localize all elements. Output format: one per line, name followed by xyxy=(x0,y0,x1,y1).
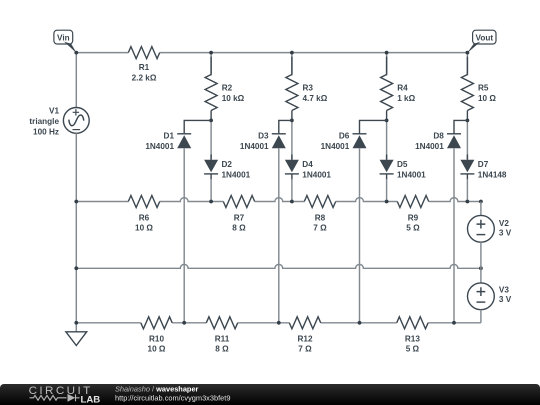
junction node row 1 col 1 xyxy=(209,200,213,204)
svg-text:10 kΩ: 10 kΩ xyxy=(222,94,245,103)
wire column 1 bottom (D2 to row 1) xyxy=(210,179,212,202)
wire column 2 mid (R3 to D4) xyxy=(291,120,293,159)
junction node at column 3 branch xyxy=(385,119,389,123)
wire row 3 seg a (left rail to R10) xyxy=(76,322,141,324)
wire column 1 top (top rail to R2) xyxy=(210,53,212,76)
wire branch horizontal to D6 xyxy=(360,120,387,133)
svg-text:100 Hz: 100 Hz xyxy=(33,127,59,136)
wire branch horizontal to D3 xyxy=(279,120,292,133)
svg-text:5 Ω: 5 Ω xyxy=(406,223,420,232)
junction node row 1 left rail xyxy=(74,200,78,204)
svg-text:10 Ω: 10 Ω xyxy=(148,345,166,354)
wire column 3 bottom (D5 to row 1) xyxy=(386,179,388,202)
voltage source V2 (3 V) xyxy=(468,215,512,242)
resistor R7 xyxy=(223,196,254,233)
junction node row 1 col 2 xyxy=(290,200,294,204)
svg-text:7 Ω: 7 Ω xyxy=(298,345,312,354)
resistor R12 xyxy=(289,317,320,354)
svg-text:R6: R6 xyxy=(139,213,150,222)
resistor R11 xyxy=(206,317,237,354)
junction node row 2 left rail xyxy=(74,266,78,270)
junction node row 1 at V2 xyxy=(479,200,483,204)
wire column 4 top (top rail to R5) xyxy=(466,53,468,76)
junction node row 1 col 3 xyxy=(385,200,389,204)
svg-text:R7: R7 xyxy=(234,213,245,222)
junction node at column 2 branch xyxy=(290,119,294,123)
junction node top rail col 3 xyxy=(385,51,389,55)
wire row 3 seg e (R13 to V3) xyxy=(428,322,481,324)
svg-text:D8: D8 xyxy=(433,132,444,141)
svg-text:Vout: Vout xyxy=(476,34,494,43)
svg-text:8 Ω: 8 Ω xyxy=(232,223,246,232)
svg-text:R12: R12 xyxy=(297,334,312,343)
diode D3 xyxy=(240,132,286,152)
diode D1 xyxy=(145,132,191,152)
wire V2 to V3 (through row 2 node) xyxy=(480,242,482,283)
node Vin label xyxy=(54,30,77,53)
resistor R13 xyxy=(397,317,428,354)
junction node top rail col 1 xyxy=(209,51,213,55)
node Vout label xyxy=(467,30,496,53)
svg-text:1N4001: 1N4001 xyxy=(240,142,269,151)
svg-text:D1: D1 xyxy=(164,132,175,141)
wire row 1 seg a (left rail to R6) xyxy=(76,201,128,203)
svg-text:1N4001: 1N4001 xyxy=(397,170,426,179)
diode D8 xyxy=(415,132,461,152)
wire column 3 mid (R4 to D5) xyxy=(386,120,388,159)
svg-text:R3: R3 xyxy=(303,83,314,92)
svg-text:R8: R8 xyxy=(315,213,326,222)
wire branch horizontal to D8 xyxy=(454,120,467,133)
svg-text:2.2 kΩ: 2.2 kΩ xyxy=(132,74,157,83)
svg-text:triangle: triangle xyxy=(29,117,59,126)
svg-text:7 Ω: 7 Ω xyxy=(313,223,327,232)
diode D5 xyxy=(380,155,427,180)
junction node at column 1 branch xyxy=(209,119,213,123)
resistor R5 xyxy=(461,57,496,121)
svg-text:1N4148: 1N4148 xyxy=(478,170,507,179)
svg-text:1N4001: 1N4001 xyxy=(321,142,350,151)
wire V2 top lead (row 1 to V2) xyxy=(480,202,482,216)
svg-text:3 V: 3 V xyxy=(499,295,512,304)
diode D6 xyxy=(321,132,367,152)
junction node row 2 at V2/V3 xyxy=(479,266,483,270)
svg-text:Vin: Vin xyxy=(57,34,70,43)
wire branch D8 down to row 3 (hops rows 1,2) xyxy=(453,148,455,322)
svg-text:1N4001: 1N4001 xyxy=(145,142,174,151)
wire column 4 bottom (D7 to row 1) xyxy=(466,179,468,202)
svg-text:D5: D5 xyxy=(397,160,408,169)
wire row 1 seg b (R6 to R7, hop at D1) xyxy=(160,198,224,202)
svg-text:1N4001: 1N4001 xyxy=(302,170,331,179)
svg-text:R13: R13 xyxy=(405,334,420,343)
junction node row 3 at D1 xyxy=(182,321,186,325)
junction node row 3 at D3 xyxy=(277,321,281,325)
svg-text:R5: R5 xyxy=(478,83,489,92)
svg-text:V2: V2 xyxy=(499,219,509,228)
node Vin attach point xyxy=(74,51,78,55)
junction node row 3 at D6 xyxy=(358,321,362,325)
svg-text:V1: V1 xyxy=(49,107,59,116)
wire top rail right (R1 to Vout) xyxy=(160,52,468,54)
resistor R8 xyxy=(304,196,335,233)
svg-text:LAB: LAB xyxy=(81,394,101,405)
svg-text:R1: R1 xyxy=(139,63,150,72)
wire row 1 seg e (R9 to V2, hop at D8) xyxy=(429,198,481,202)
svg-text:D6: D6 xyxy=(339,132,350,141)
wire V3 bottom lead (V3 to row 3) xyxy=(480,310,482,323)
junction node top rail col 2 xyxy=(290,51,294,55)
resistor R2 xyxy=(205,57,245,121)
svg-text:D4: D4 xyxy=(302,160,313,169)
svg-text:1N4001: 1N4001 xyxy=(222,170,251,179)
wire branch D3 down to row 3 (hops rows 1,2) xyxy=(278,148,280,322)
svg-text:Shainasho / waveshaper: Shainasho / waveshaper xyxy=(115,385,199,394)
svg-text:10 Ω: 10 Ω xyxy=(135,223,153,232)
svg-text:V3: V3 xyxy=(499,286,509,295)
wire branch horizontal to D1 xyxy=(184,120,211,133)
svg-text:R2: R2 xyxy=(222,83,233,92)
svg-text:R10: R10 xyxy=(149,334,164,343)
svg-text:5 Ω: 5 Ω xyxy=(406,345,420,354)
wire left rail upper (Vin to V1) xyxy=(75,53,77,108)
svg-text:3 V: 3 V xyxy=(499,229,512,238)
wire column 2 top (top rail to R3) xyxy=(291,53,293,76)
diode D4 xyxy=(285,155,332,180)
resistor R6 xyxy=(128,196,159,233)
wire row 3 seg d (R12 to R13) xyxy=(321,322,397,324)
wire left rail lower (V1 to ground) xyxy=(75,133,77,331)
voltage source V3 (3 V) xyxy=(468,283,512,310)
wire row 2 (left rail to V2/V3 node, hops at D1,D3,D6,D8) xyxy=(76,264,481,268)
CircuitLab banner background xyxy=(0,384,540,405)
svg-text:http://circuitlab.com/cvygm3x3: http://circuitlab.com/cvygm3x3bfet9 xyxy=(115,394,230,403)
node Vout attach point xyxy=(466,51,470,55)
svg-text:R11: R11 xyxy=(215,334,230,343)
resistor R1 xyxy=(128,47,159,83)
CircuitLab logo resistor-diode squiggle xyxy=(30,394,80,401)
wire row 1 seg c (R7 to R8, hop at D3) xyxy=(255,198,305,202)
svg-text:R4: R4 xyxy=(397,83,408,92)
svg-text:D3: D3 xyxy=(258,132,269,141)
svg-text:4.7 kΩ: 4.7 kΩ xyxy=(303,94,328,103)
junction node row 3 left rail xyxy=(74,321,78,325)
resistor R10 xyxy=(141,317,172,354)
svg-text:1 kΩ: 1 kΩ xyxy=(397,94,415,103)
diode D7 xyxy=(460,155,507,180)
wire column 1 mid (R2 to D2) xyxy=(210,120,212,159)
wire branch D1 down to row 3 (hops rows 1,2) xyxy=(183,148,185,322)
junction node row 3 at D8 xyxy=(452,321,456,325)
svg-text:R9: R9 xyxy=(408,213,419,222)
diode D2 xyxy=(204,155,251,180)
svg-text:D7: D7 xyxy=(478,160,489,169)
resistor R9 xyxy=(397,196,428,233)
wire row 3 seg c (R11 to R12) xyxy=(238,322,290,324)
wire column 2 bottom (D4 to row 1) xyxy=(291,179,293,202)
wire column 4 mid (R5 to D7) xyxy=(466,120,468,159)
ground symbol xyxy=(66,332,87,346)
svg-text:1N4001: 1N4001 xyxy=(415,142,444,151)
wire row 3 seg b (R10 to R11) xyxy=(172,322,206,324)
resistor R3 xyxy=(286,57,328,121)
wire column 3 top (top rail to R4) xyxy=(386,53,388,76)
svg-text:8 Ω: 8 Ω xyxy=(215,345,229,354)
junction node row 1 col 4 xyxy=(466,200,470,204)
junction node at column 4 branch xyxy=(466,119,470,123)
svg-text:10 Ω: 10 Ω xyxy=(478,94,496,103)
wire top rail left (Vin to R1) xyxy=(76,52,128,54)
wire branch D6 down to row 3 (hops rows 1,2) xyxy=(359,148,361,322)
voltage source V1 (triangle 100 Hz) xyxy=(29,107,89,137)
svg-text:D2: D2 xyxy=(222,160,233,169)
wire row 1 seg d (R8 to R9, hop at D6) xyxy=(336,198,398,202)
resistor R4 xyxy=(381,57,416,121)
